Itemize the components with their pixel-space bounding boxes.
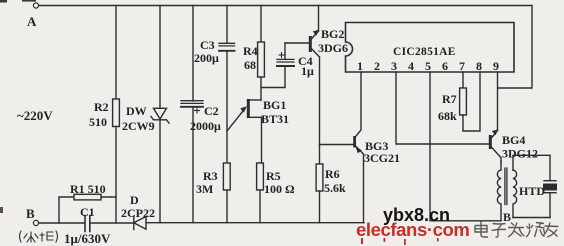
wire C1 to diode D: [90, 222, 134, 224]
resistor R7: [460, 72, 480, 131]
wire pin3 to BG4 base: [396, 72, 489, 144]
capacitor C4: [277, 43, 294, 66]
scan speck top left: [0, 0, 36, 3]
scan speck left edge: [0, 207, 3, 213]
piezo sounder HTD: [543, 155, 557, 217]
resistor R3: [223, 163, 230, 223]
svg-text:BG4: BG4: [502, 133, 525, 147]
svg-text:5: 5: [425, 59, 431, 73]
wire pin9: [497, 72, 499, 131]
resistor R4: [258, 6, 265, 101]
IC pin numbers: [357, 59, 499, 73]
svg-text:R7: R7: [442, 92, 457, 106]
wire pin5 to transformer: [430, 72, 501, 221]
resistor R6: [316, 146, 323, 223]
svg-text:1μ: 1μ: [301, 64, 314, 78]
transformer B secondary winding: [513, 170, 517, 218]
resistor R2: [113, 6, 120, 224]
watermark chinese characters (电子发烧友): [475, 222, 559, 238]
capacitor C3: [219, 6, 235, 164]
svg-text:R2: R2: [94, 100, 109, 114]
svg-text:3: 3: [391, 59, 397, 73]
svg-text:2CP22: 2CP22: [121, 206, 155, 220]
svg-text:BG2: BG2: [321, 27, 344, 41]
svg-text:BG1: BG1: [263, 98, 286, 112]
svg-text:1μ/630V: 1μ/630V: [64, 231, 111, 246]
wire secondary top to HTD: [513, 155, 550, 170]
transistor BG3: [320, 136, 364, 223]
svg-text:R6: R6: [325, 167, 340, 181]
transistor BG2: [285, 6, 320, 146]
capacitor C1: [85, 216, 90, 232]
wire pin1 to BG3: [356, 72, 361, 136]
svg-text:100 Ω: 100 Ω: [264, 182, 295, 196]
watermark drip marks: [361, 238, 439, 245]
diode D: [134, 216, 146, 230]
svg-text:5.6k: 5.6k: [324, 181, 346, 195]
svg-text:R4: R4: [243, 44, 258, 58]
label huoxian (火线): [20, 231, 58, 242]
svg-text:BT31: BT31: [261, 112, 289, 126]
wire top rail: [39, 6, 532, 89]
svg-text:4: 4: [408, 59, 414, 73]
svg-text:68k: 68k: [438, 109, 457, 123]
svg-text:9: 9: [493, 59, 499, 73]
svg-text:B: B: [503, 210, 511, 224]
svg-text:2: 2: [374, 59, 380, 73]
svg-text:R5: R5: [266, 169, 281, 183]
svg-text:elecfans·com: elecfans·com: [356, 219, 469, 240]
transformer B primary winding: [497, 161, 501, 221]
terminal B: [33, 220, 38, 225]
svg-text:1: 1: [357, 59, 363, 73]
svg-text:2CW9: 2CW9: [122, 119, 155, 133]
svg-text:HTD: HTD: [519, 184, 545, 198]
IC U1 CIC2851AE box: [346, 23, 515, 73]
svg-text:3DG6: 3DG6: [318, 41, 348, 55]
resistor R1: [59, 194, 116, 223]
svg-text:C1: C1: [80, 205, 95, 219]
svg-text:3CG21: 3CG21: [364, 151, 400, 165]
svg-text:C3: C3: [200, 38, 215, 52]
svg-text:CIC2851AE: CIC2851AE: [393, 46, 456, 58]
svg-text:DW: DW: [126, 104, 147, 118]
transistor BG1 (UJT): [227, 99, 262, 163]
terminal A: [33, 3, 38, 8]
svg-text:3M: 3M: [196, 182, 213, 196]
svg-text:7: 7: [459, 59, 465, 73]
svg-text:C2: C2: [204, 104, 219, 118]
svg-text:B: B: [26, 206, 35, 221]
wire R4 to C4: [261, 66, 285, 87]
svg-text:D: D: [130, 193, 139, 207]
svg-text:200μ: 200μ: [194, 51, 219, 65]
wire bottom B to C1: [39, 222, 85, 224]
svg-text:6: 6: [442, 59, 448, 73]
wire secondary bottom to HTD: [513, 217, 550, 219]
svg-text:3DG12: 3DG12: [502, 147, 538, 161]
svg-text:8: 8: [476, 59, 482, 73]
svg-text:~220V: ~220V: [17, 108, 53, 123]
resistor R5: [257, 163, 264, 223]
wire bottom rail: [146, 222, 364, 224]
svg-text:R3: R3: [203, 169, 218, 183]
svg-text:R1 510: R1 510: [70, 182, 106, 196]
svg-text:68: 68: [244, 58, 256, 72]
transformer core: [505, 168, 507, 205]
zener diode DW: [151, 6, 169, 223]
transistor BG4: [489, 129, 501, 162]
svg-text:510: 510: [89, 115, 107, 129]
svg-text:2000μ: 2000μ: [190, 119, 221, 133]
capacitor C2: [181, 6, 203, 223]
svg-text:A: A: [27, 14, 37, 29]
